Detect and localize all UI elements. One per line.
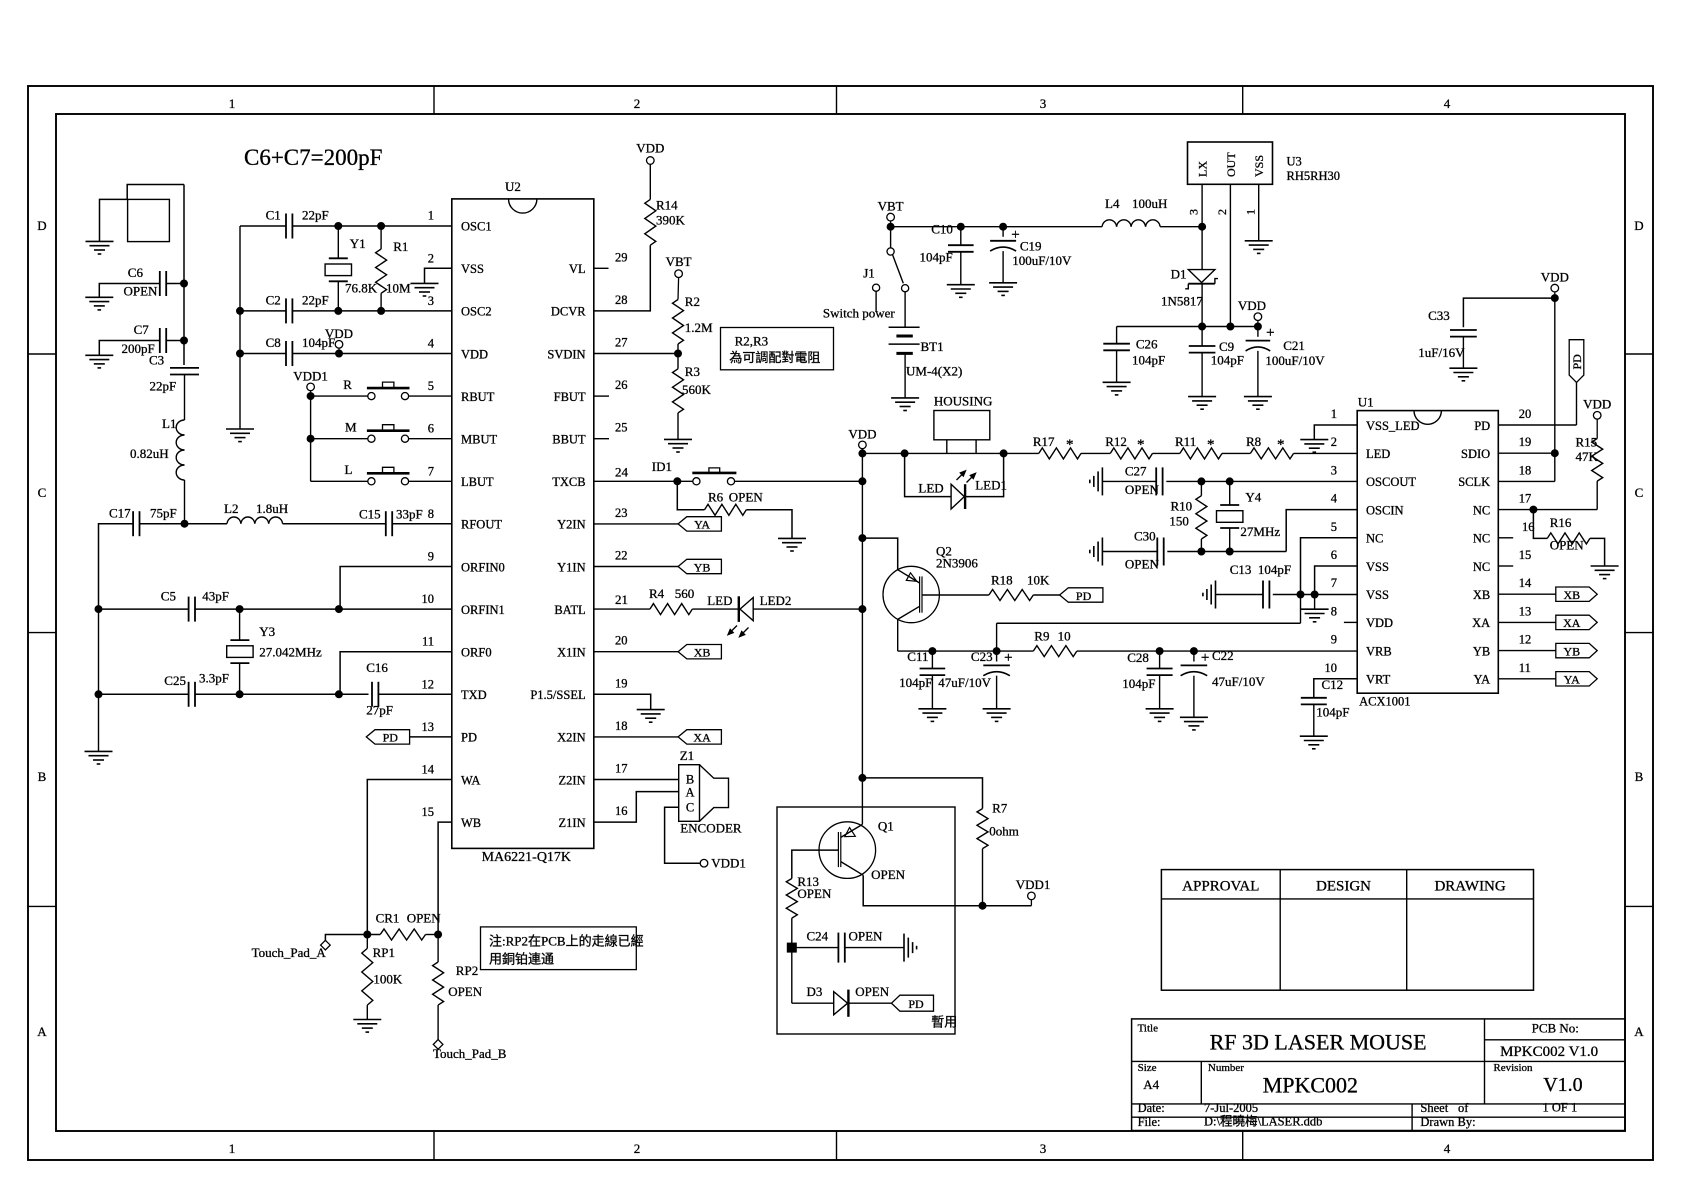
svg-text:XA: XA: [1472, 616, 1490, 630]
pad Touch_Pad_A: [321, 940, 331, 950]
svg-text:Touch_Pad_A: Touch_Pad_A: [252, 945, 327, 960]
wire OSCOUT row: [1166, 480, 1357, 482]
wire VDD row to C13 node: [997, 622, 1301, 624]
zone ticks right: [1625, 353, 1653, 355]
svg-text:15: 15: [1519, 548, 1532, 562]
wire U1 pin1 VSS_LED to ground: [1314, 425, 1357, 440]
transistor Q1: [819, 822, 876, 879]
ground (C12): [1300, 735, 1328, 737]
resistor R12: [1110, 448, 1152, 459]
stub U2 pin29 VL: [594, 267, 609, 269]
transistor Q2 2N3906: [883, 566, 939, 622]
svg-text:20: 20: [1519, 407, 1532, 421]
svg-text:R2: R2: [685, 294, 700, 309]
resistor CR1: [380, 929, 425, 940]
svg-text:D1: D1: [1171, 267, 1187, 282]
svg-text:100uH: 100uH: [1132, 196, 1167, 211]
svg-text:2: 2: [1331, 435, 1337, 449]
svg-text:11: 11: [1519, 661, 1531, 675]
svg-text:R14: R14: [656, 198, 678, 213]
wire antenna rail: [183, 185, 185, 366]
node rail/C5: [95, 606, 102, 613]
svg-text:PD: PD: [1076, 589, 1092, 603]
wire C27 left: [1102, 480, 1156, 482]
svg-text:+: +: [1266, 325, 1274, 341]
svg-text:6: 6: [428, 422, 434, 436]
svg-text:0ohm: 0ohm: [989, 824, 1019, 839]
svg-text:PCB No:: PCB No:: [1532, 1021, 1579, 1036]
node C7/rail: [181, 337, 188, 344]
capacitor C1: [285, 214, 287, 239]
node ORF0 joint: [335, 691, 342, 698]
wire left rail C1C2C8: [239, 226, 241, 429]
svg-text:R3: R3: [685, 364, 700, 379]
svg-text:1: 1: [1243, 209, 1257, 215]
node C22: [1190, 648, 1197, 655]
ground (C13 rotated): [1215, 581, 1217, 609]
svg-text:X2IN: X2IN: [557, 731, 585, 745]
svg-text:D:\程曉梅\LASER.ddb: D:\程曉梅\LASER.ddb: [1204, 1114, 1322, 1129]
svg-text:C23: C23: [971, 649, 993, 664]
svg-text:4: 4: [1444, 1141, 1451, 1156]
stub U2 pin26 FBUT: [594, 395, 609, 397]
capacitor C17: [132, 511, 134, 536]
svg-text:R17: R17: [1033, 434, 1055, 449]
wire CR1 right: [426, 934, 439, 936]
resistor RP1: [366, 935, 368, 949]
node Y1 bottom: [335, 307, 342, 314]
flag XB (U1): [1498, 593, 1556, 595]
svg-text:76.8K: 76.8K: [345, 281, 378, 296]
antenna pad outline: [127, 185, 184, 200]
switch R (RBUT): [311, 395, 368, 397]
svg-text:+: +: [1201, 650, 1209, 666]
svg-text:VDD: VDD: [461, 347, 488, 361]
svg-text:10: 10: [1058, 629, 1071, 644]
svg-text:PD: PD: [908, 997, 924, 1011]
svg-text:of: of: [1458, 1101, 1469, 1115]
svg-text:PD: PD: [1474, 419, 1490, 433]
capacitor C6: [159, 271, 161, 296]
node rail/Q2 emitter: [859, 535, 866, 542]
svg-text:C: C: [1635, 485, 1644, 500]
power VDD (rail): [859, 441, 867, 449]
svg-text:R10: R10: [1171, 499, 1193, 514]
svg-text:18: 18: [615, 719, 628, 733]
resistor R6: [677, 481, 704, 510]
svg-text:HOUSING: HOUSING: [934, 394, 993, 409]
power VDD (U2 pin4): [335, 341, 343, 349]
svg-text:C16: C16: [366, 660, 388, 675]
svg-text:File:: File:: [1138, 1115, 1161, 1129]
svg-text:9: 9: [428, 550, 434, 564]
svg-text:LED: LED: [707, 593, 732, 608]
svg-text:104pF: 104pF: [1122, 676, 1155, 691]
svg-text:0.82uH: 0.82uH: [130, 446, 169, 461]
svg-text:RBUT: RBUT: [461, 390, 495, 404]
wire housing row: [862, 452, 1003, 454]
svg-text:Number: Number: [1208, 1062, 1244, 1074]
wire PD flag stem: [1576, 382, 1578, 425]
svg-text:FBUT: FBUT: [554, 390, 586, 404]
svg-text:UM-4(X2): UM-4(X2): [906, 364, 962, 379]
capacitor C33: [1450, 329, 1477, 331]
svg-text:XB: XB: [1473, 588, 1490, 602]
crystal Y1: [337, 226, 339, 258]
wire U1 pin10 VRT / capacitor C12: [1314, 679, 1357, 698]
LED1 arrows: [957, 471, 976, 483]
svg-text:B: B: [38, 769, 47, 784]
wire R11-R8: [1222, 452, 1250, 454]
svg-text:C12: C12: [1322, 677, 1344, 692]
svg-text:1uF/16V: 1uF/16V: [1418, 345, 1465, 360]
wire left rail to ground: [98, 609, 100, 751]
ground (C1C2C8 rail): [226, 428, 254, 430]
svg-text:RP1: RP1: [373, 945, 395, 960]
wire CR1 row left: [325, 935, 380, 942]
node rail/C25: [95, 691, 102, 698]
svg-text:Y2IN: Y2IN: [557, 518, 585, 532]
ground (C10): [947, 284, 975, 286]
svg-text:1: 1: [229, 96, 236, 111]
capacitor C8: [285, 341, 287, 366]
svg-text:R7: R7: [992, 801, 1008, 816]
svg-text:B: B: [1635, 769, 1644, 784]
power VDD1 (Q1): [1028, 892, 1036, 900]
svg-text:VDD: VDD: [1583, 397, 1611, 412]
wire ID1 to VDD rail: [735, 480, 863, 482]
svg-text:OPEN: OPEN: [1125, 557, 1160, 572]
svg-text:R9: R9: [1034, 629, 1049, 644]
svg-text:M: M: [345, 420, 357, 435]
svg-text:BBUT: BBUT: [552, 433, 586, 447]
ground (C28): [1146, 708, 1174, 710]
housing box: [934, 411, 990, 440]
battery BT1: [904, 292, 906, 328]
svg-text:OPEN: OPEN: [797, 886, 832, 901]
svg-text:SVDIN: SVDIN: [547, 347, 585, 361]
note box R2R3: [721, 328, 834, 370]
svg-text:16: 16: [615, 804, 628, 818]
wire U1 pin4 OSCIN jog: [1286, 510, 1357, 552]
power VDD1 (buttons): [307, 383, 315, 391]
flag YB (U1): [1498, 650, 1556, 652]
resistor R9: [1033, 646, 1077, 657]
ground (antenna): [86, 240, 114, 242]
svg-text:2N3906: 2N3906: [936, 556, 978, 571]
wire L4 to LX: [1160, 226, 1202, 228]
node Y4 top: [1226, 478, 1233, 485]
svg-text:25: 25: [615, 421, 628, 435]
capacitor C3: [170, 367, 199, 369]
wire C15 to U2 pin8: [392, 523, 452, 525]
svg-text:C27: C27: [1125, 464, 1147, 479]
crystal Y4: [1229, 481, 1231, 505]
svg-text:27: 27: [615, 336, 628, 350]
svg-text:C24: C24: [807, 929, 829, 944]
svg-text:9: 9: [1331, 633, 1337, 647]
svg-text:Y1: Y1: [350, 236, 366, 251]
svg-text:10K: 10K: [1027, 573, 1050, 588]
svg-text:C2: C2: [266, 293, 281, 308]
svg-text:OUT: OUT: [1224, 152, 1238, 177]
svg-text:+: +: [1004, 650, 1012, 666]
ground (C6): [85, 296, 113, 298]
wire C7 left: [99, 341, 160, 356]
svg-text:NC: NC: [1473, 560, 1490, 574]
svg-text:6: 6: [1331, 548, 1337, 562]
svg-text:150: 150: [1169, 514, 1189, 529]
svg-text:29: 29: [615, 250, 628, 264]
svg-text:A: A: [685, 785, 694, 799]
ground (C30 rotated): [1101, 538, 1103, 566]
wire PD flag to U2: [410, 736, 452, 738]
wire C17 to L2: [140, 523, 228, 525]
node VDD/C8: [336, 350, 343, 357]
svg-text:暫用: 暫用: [931, 1015, 957, 1030]
svg-text:D: D: [37, 218, 46, 233]
svg-text:VSS: VSS: [1252, 155, 1266, 177]
svg-text:ID1: ID1: [652, 459, 672, 474]
node Y4 bottom: [1226, 548, 1233, 555]
LED LED2: [692, 608, 738, 610]
svg-text:YA: YA: [1564, 673, 1580, 687]
svg-text:12: 12: [1519, 633, 1532, 647]
svg-text:用銅铂連通: 用銅铂連通: [489, 952, 554, 967]
svg-text:NC: NC: [1473, 503, 1490, 517]
svg-text:VSS_LED: VSS_LED: [1366, 419, 1419, 433]
resistor R15: [1593, 412, 1601, 420]
svg-text:3: 3: [428, 294, 434, 308]
svg-text:OSCIN: OSCIN: [1366, 503, 1404, 517]
svg-text:100uF/10V: 100uF/10V: [1012, 253, 1072, 268]
svg-text:Drawn By:: Drawn By:: [1420, 1115, 1475, 1129]
ground (C26): [1103, 381, 1131, 383]
antenna pad square: [128, 199, 170, 241]
svg-text:C11: C11: [907, 649, 928, 664]
svg-text:33pF: 33pF: [396, 507, 423, 522]
svg-text:ENCODER: ENCODER: [680, 821, 742, 836]
ground (U1 pin1): [1300, 439, 1328, 441]
svg-text:RH5RH30: RH5RH30: [1287, 169, 1340, 183]
ground (C9): [1188, 396, 1216, 398]
svg-text:Z1: Z1: [680, 748, 694, 763]
svg-text:OSCOUT: OSCOUT: [1366, 475, 1416, 489]
svg-text:J1: J1: [863, 266, 875, 281]
node R7/collector: [979, 902, 986, 909]
ground (R6): [778, 537, 806, 539]
svg-text:104pF: 104pF: [920, 250, 953, 265]
capacitor C16: [371, 682, 373, 707]
svg-text:WA: WA: [461, 773, 480, 787]
svg-text:3: 3: [1040, 1141, 1047, 1156]
svg-text:22: 22: [615, 549, 628, 563]
ground (below C13 node): [1314, 595, 1316, 610]
stub U1 pin16: [1498, 537, 1513, 539]
svg-text:2: 2: [634, 1141, 641, 1156]
capacitor C2: [285, 298, 287, 323]
svg-text:13: 13: [422, 720, 435, 734]
svg-text:2: 2: [428, 251, 434, 265]
svg-text:注:RP2在PCB上的走線已經: 注:RP2在PCB上的走線已經: [489, 934, 644, 949]
svg-text:C26: C26: [1136, 337, 1158, 352]
svg-text:MPKC002: MPKC002: [1263, 1073, 1358, 1098]
svg-text:Z1IN: Z1IN: [559, 816, 586, 830]
svg-text:C13: C13: [1230, 562, 1252, 577]
ground (C7): [85, 354, 113, 356]
svg-text:YB: YB: [1473, 644, 1490, 658]
svg-text:U3: U3: [1287, 155, 1302, 169]
node VDD/C33: [1551, 295, 1558, 302]
IC U1 ACX1001 body: [1357, 411, 1498, 694]
svg-text:VL: VL: [569, 262, 586, 276]
wire C7 right: [166, 340, 184, 342]
svg-text:17: 17: [615, 762, 628, 776]
svg-text:A: A: [37, 1024, 47, 1039]
node R13/C24: [787, 943, 796, 952]
svg-text:RF 3D LASER MOUSE: RF 3D LASER MOUSE: [1210, 1030, 1427, 1055]
svg-text:RP2: RP2: [456, 963, 478, 978]
wire C16 to U2 pin12: [378, 693, 451, 695]
svg-text:5: 5: [428, 379, 434, 393]
svg-text:4: 4: [1444, 96, 1451, 111]
svg-text:2: 2: [1215, 209, 1229, 215]
wire U3 VSS pin: [1258, 184, 1260, 241]
svg-text:C7: C7: [134, 322, 150, 337]
wire R12-R11: [1153, 452, 1180, 454]
title block: [1132, 1019, 1625, 1131]
svg-text:8: 8: [428, 507, 434, 521]
flag PD (U2 pin13): [366, 730, 409, 744]
IC U2 MA6221-Q17K body: [452, 199, 594, 849]
node C6/rail: [181, 280, 188, 287]
svg-text:U2: U2: [505, 179, 521, 194]
capacitor C27: [1155, 467, 1157, 495]
svg-text:MA6221-Q17K: MA6221-Q17K: [482, 850, 571, 865]
wire TXCB row: [594, 480, 693, 482]
svg-text:1.2M: 1.2M: [685, 320, 713, 335]
encoder Z1: [679, 765, 700, 822]
stub U1 pin15: [1498, 565, 1513, 567]
wire C6 left: [99, 284, 160, 298]
wire VDD down to SDIO/SCLK: [1554, 298, 1556, 481]
svg-text:5: 5: [1331, 520, 1337, 534]
wire U1 pin7 VSS row: [1273, 594, 1357, 596]
resistor R10: [1200, 481, 1202, 495]
power VDD (U3 out): [1254, 313, 1262, 321]
wire R8 to U1 pin2: [1294, 452, 1358, 454]
svg-text:CR1: CR1: [376, 911, 400, 926]
wire antenna to ground: [100, 199, 128, 241]
svg-text:*: *: [1066, 437, 1074, 453]
node Y3 bottom: [236, 691, 243, 698]
switch M (MBUT): [311, 438, 368, 440]
wire VRB row: [898, 650, 1034, 652]
svg-text:VDD1: VDD1: [711, 856, 746, 871]
svg-text:OPEN: OPEN: [729, 490, 764, 505]
svg-text:OSC2: OSC2: [461, 305, 492, 319]
wire C2 row: [240, 310, 286, 312]
svg-text:VBT: VBT: [666, 254, 692, 269]
inductor L1: [184, 375, 186, 421]
wire U1 pin18 SCLK: [1498, 480, 1555, 482]
inductor L4: [1102, 220, 1117, 227]
svg-text:C3: C3: [149, 353, 164, 368]
svg-text:OPEN: OPEN: [849, 929, 884, 944]
svg-text:7: 7: [428, 464, 434, 478]
svg-text:560: 560: [675, 586, 695, 601]
capacitor C5: [188, 597, 190, 622]
svg-text:19: 19: [1519, 435, 1532, 449]
svg-text:RFOUT: RFOUT: [461, 518, 502, 532]
svg-text:18: 18: [1519, 463, 1532, 477]
wire Q1 base: [792, 850, 839, 878]
svg-text:C19: C19: [1020, 239, 1042, 254]
svg-text:104pF: 104pF: [1211, 353, 1244, 368]
svg-text:14: 14: [422, 763, 435, 777]
svg-text:15: 15: [422, 805, 435, 819]
svg-text:VRB: VRB: [1366, 644, 1392, 658]
svg-text:YB: YB: [694, 560, 711, 574]
svg-text:C25: C25: [164, 673, 186, 688]
svg-text:OPEN: OPEN: [1550, 538, 1585, 553]
LED2 arrows: [728, 626, 749, 637]
wire U3 OUT pin: [1229, 184, 1231, 326]
svg-text:VSS: VSS: [461, 262, 484, 276]
svg-text:22pF: 22pF: [302, 293, 329, 308]
svg-text:20: 20: [615, 634, 628, 648]
svg-text:C6: C6: [128, 265, 144, 280]
svg-text:11: 11: [422, 635, 434, 649]
svg-text:R18: R18: [991, 573, 1013, 588]
node rail/TXCB: [859, 478, 866, 485]
svg-text:1: 1: [1331, 407, 1337, 421]
node ORFIN0 joint: [335, 606, 342, 613]
svg-text:C28: C28: [1127, 650, 1149, 665]
svg-text:ORFIN0: ORFIN0: [461, 560, 505, 574]
capacitor C25: [188, 682, 190, 707]
svg-text:D: D: [1634, 218, 1643, 233]
node rail M: [307, 435, 314, 442]
node OUT/VDD: [1227, 323, 1234, 330]
svg-text:Date:: Date:: [1138, 1101, 1165, 1115]
ground (C23): [983, 708, 1011, 710]
node C13/pin5: [1297, 591, 1304, 598]
switch J1: [890, 227, 892, 248]
svg-text:DESIGN: DESIGN: [1316, 879, 1371, 895]
capacitor C24: [792, 947, 839, 949]
wire C6 right: [166, 283, 184, 285]
wire U1 pin5 jog: [1301, 538, 1358, 595]
ground (BT1): [891, 397, 919, 399]
svg-text:C5: C5: [161, 589, 176, 604]
svg-text:C6+C7=200pF: C6+C7=200pF: [244, 145, 382, 170]
power VDD1 (encoder): [700, 859, 708, 867]
svg-text:XA: XA: [1563, 616, 1581, 630]
wire C5 row: [99, 608, 189, 610]
flag PD (D3): [848, 1002, 891, 1004]
ground (R16): [1591, 565, 1619, 567]
svg-text:47uF/10V: 47uF/10V: [938, 675, 991, 690]
svg-text:VDD: VDD: [848, 426, 876, 441]
svg-text:7: 7: [1331, 576, 1337, 590]
svg-text:27.042MHz: 27.042MHz: [259, 644, 322, 659]
node L1/RFOUT: [181, 520, 188, 527]
svg-text:LED: LED: [1366, 447, 1390, 461]
svg-text:2: 2: [634, 96, 641, 111]
ground (C27 rotated): [1101, 467, 1103, 495]
svg-text:APPROVAL: APPROVAL: [1182, 879, 1259, 895]
